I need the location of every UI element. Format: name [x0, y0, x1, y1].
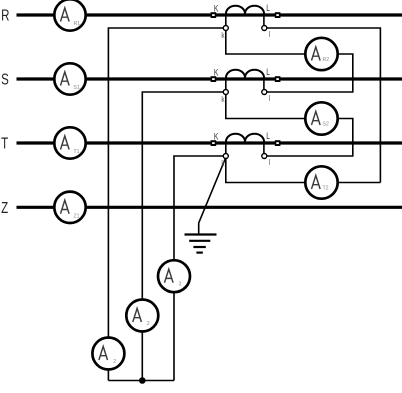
svg-text:2: 2	[113, 359, 116, 365]
svg-text:L: L	[266, 67, 270, 77]
wire k_S to ammeter AS2	[226, 92, 306, 119]
svg-text:S: S	[1, 70, 9, 88]
svg-text:R2: R2	[323, 57, 330, 63]
CT terminal K (S phase)	[211, 76, 217, 82]
ground	[185, 235, 217, 253]
terminal circle l (S phase)	[262, 90, 267, 95]
svg-text:K: K	[214, 132, 219, 142]
CT terminal L (R phase)	[275, 12, 281, 18]
svg-text:S1: S1	[74, 85, 80, 91]
ammeter A_2	[126, 300, 158, 332]
svg-text:K: K	[214, 68, 219, 78]
bus Z	[17, 206, 402, 209]
ammeter A_1	[92, 338, 124, 370]
CT secondary drop k (R phase)	[225, 17, 227, 26]
bus S	[17, 77, 402, 80]
wire AS2 return to l_T	[267, 119, 353, 157]
wire AT2 return to right column	[338, 182, 381, 184]
svg-text:L: L	[266, 3, 270, 13]
svg-text:R1: R1	[74, 21, 81, 27]
wire k_R to ammeter AR2	[226, 28, 306, 54]
svg-text:T: T	[1, 134, 8, 152]
ammeter A_3	[158, 260, 190, 292]
svg-text:2: 2	[147, 321, 150, 327]
CT primary coil (S phase)	[226, 70, 264, 78]
ammeter A_S2	[305, 102, 337, 134]
junction dot	[139, 377, 146, 384]
ammeter A_S1	[54, 63, 85, 94]
svg-text:K: K	[214, 4, 219, 14]
wire k_R to left drop	[108, 28, 225, 381]
CT terminal K (R phase)	[211, 12, 217, 18]
CT secondary drop l (S phase)	[263, 81, 265, 90]
ammeter A_T2	[305, 166, 337, 198]
bus T	[17, 141, 402, 144]
terminal circle k (T phase)	[223, 154, 228, 159]
CT secondary drop l (T phase)	[263, 145, 265, 154]
svg-text:T1: T1	[74, 149, 80, 155]
CT secondary drop l (R phase)	[263, 17, 265, 26]
svg-text:R: R	[1, 6, 9, 24]
terminal circle k (S phase)	[223, 90, 228, 95]
CT terminal K (T phase)	[211, 140, 217, 146]
terminal circle l (T phase)	[262, 154, 267, 159]
svg-text:S2: S2	[323, 122, 329, 128]
wire k_S to left drop	[142, 92, 226, 381]
ammeter A_R2	[305, 38, 337, 70]
ammeter A_R1	[54, 0, 85, 31]
terminal circle l (R phase)	[262, 26, 267, 31]
ammeter A_T1	[54, 127, 85, 158]
CT terminal L (S phase)	[275, 76, 281, 82]
svg-text:3: 3	[179, 282, 182, 288]
svg-text:Z1: Z1	[74, 213, 80, 219]
wire earth diagonal from k_T	[199, 158, 226, 235]
wire AR2 return to l_S	[267, 54, 353, 92]
bus R	[17, 13, 402, 16]
terminal circle k (R phase)	[223, 26, 228, 31]
wire k_T to left drop	[174, 156, 226, 381]
CT secondary drop k (T phase)	[225, 145, 227, 154]
svg-text:T2: T2	[323, 186, 329, 192]
CT terminal L (T phase)	[275, 140, 281, 146]
wire bottom link	[108, 380, 174, 382]
svg-text:k: k	[221, 94, 224, 104]
CT secondary drop k (S phase)	[225, 81, 227, 90]
svg-text:L: L	[266, 131, 270, 141]
CT primary coil (T phase)	[226, 134, 264, 142]
CT primary coil (R phase)	[226, 6, 264, 14]
svg-text:Z: Z	[1, 198, 8, 216]
wire k_T to ammeter AT2	[226, 156, 306, 183]
svg-text:k: k	[221, 30, 224, 40]
wire l_R to right column down to AT2	[267, 28, 381, 183]
ammeter A_Z1	[54, 192, 85, 223]
svg-text:k: k	[221, 158, 224, 168]
